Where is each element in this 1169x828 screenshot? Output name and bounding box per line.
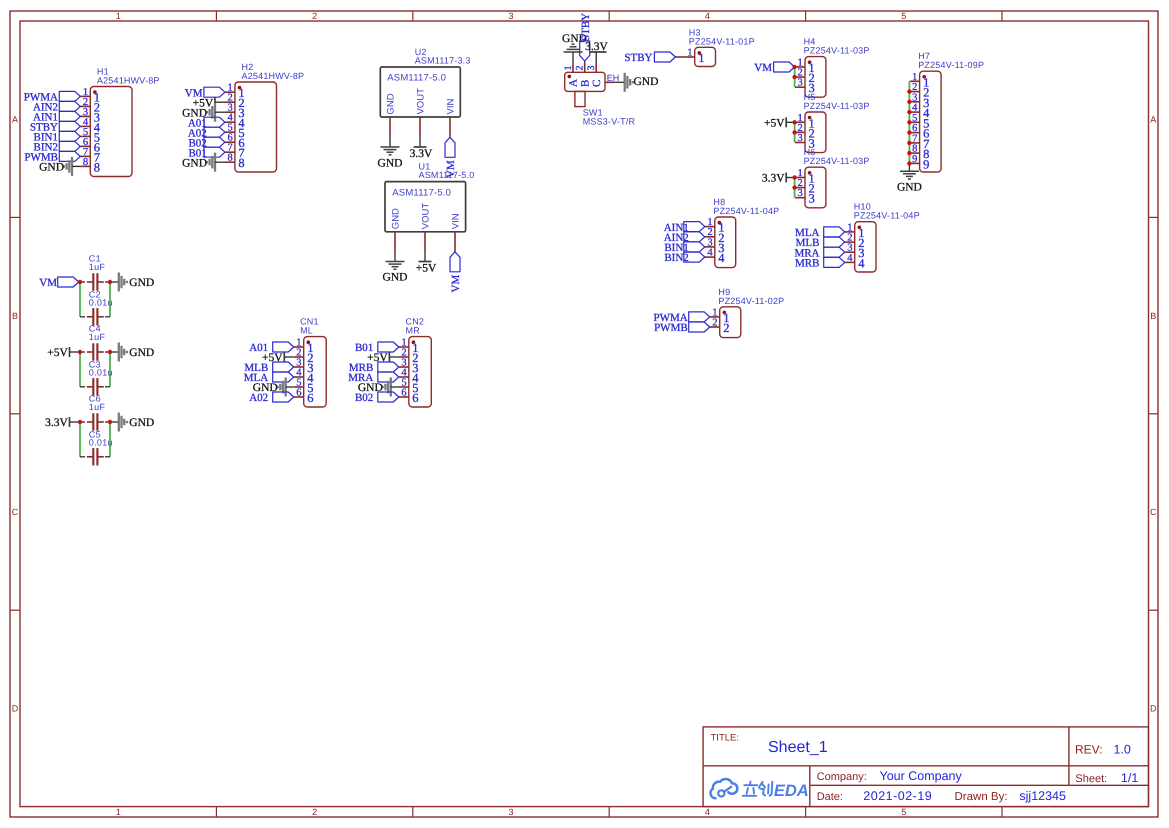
svg-text:B: B — [1150, 311, 1156, 321]
svg-text:Your Company: Your Company — [880, 769, 963, 783]
net flag VM to H4 — [754, 62, 794, 74]
svg-text:4: 4 — [858, 256, 865, 270]
svg-text:2: 2 — [312, 807, 317, 817]
CN1 pin numbers — [296, 338, 314, 406]
connector H4 (PZ254V-11-03P) body — [795, 57, 826, 98]
svg-text:3: 3 — [508, 807, 513, 817]
net flag MLB — [796, 237, 845, 249]
ground GND flag — [182, 153, 225, 172]
ground GND (right of C4) — [119, 343, 154, 362]
capacitor C5 0.01u — [87, 448, 104, 465]
wire C4 to GND — [110, 351, 119, 353]
svg-text:B: B — [12, 311, 18, 321]
ground GND at SW1 pin 1 — [562, 33, 587, 63]
U1 reference label — [419, 162, 475, 181]
svg-text:A: A — [568, 79, 580, 87]
junction dots on 3.3V rail — [78, 420, 112, 424]
svg-text:VIN: VIN — [445, 99, 456, 115]
svg-text:PZ254V-11-04P: PZ254V-11-04P — [713, 206, 779, 216]
net flag VM at U1 VIN — [450, 252, 462, 293]
svg-text:REV:: REV: — [1075, 743, 1103, 757]
connector H6 (PZ254V-11-03P) body — [795, 167, 826, 208]
ground GND at U2 pin 1 — [378, 137, 403, 170]
net flag B01 — [355, 342, 399, 354]
net flag PWMA — [24, 91, 81, 103]
svg-text:5: 5 — [901, 11, 906, 21]
svg-text:4: 4 — [705, 807, 710, 817]
svg-text:+5V: +5V — [764, 118, 785, 130]
svg-text:1: 1 — [116, 807, 121, 817]
svg-text:ASM1117-5.0: ASM1117-5.0 — [392, 187, 451, 198]
svg-text:6: 6 — [412, 391, 418, 405]
junctions H4 — [792, 65, 796, 80]
svg-text:2: 2 — [712, 318, 717, 329]
svg-text:Date:: Date: — [817, 791, 843, 803]
svg-text:GND: GND — [39, 162, 64, 174]
svg-text:3: 3 — [798, 188, 803, 199]
net flag A01 — [188, 117, 225, 129]
connector H10 (PZ254V-11-04P) body — [845, 222, 876, 272]
svg-text:sjj12345: sjj12345 — [1019, 789, 1066, 803]
svg-text:1uF: 1uF — [89, 402, 106, 412]
svg-text:3: 3 — [798, 133, 803, 144]
svg-text:3: 3 — [798, 78, 803, 89]
U1 pin leads — [395, 232, 455, 252]
svg-text:MR: MR — [406, 326, 421, 336]
svg-text:8: 8 — [227, 153, 232, 164]
connector H5 (PZ254V-11-03P) body — [795, 112, 826, 153]
svg-text:4: 4 — [705, 11, 710, 21]
svg-text:PZ254V-11-09P: PZ254V-11-09P — [918, 60, 984, 70]
svg-text:4: 4 — [718, 251, 725, 265]
H8 pin numbers — [707, 217, 725, 265]
svg-text:VM: VM — [39, 277, 57, 289]
net flag STBY — [30, 121, 80, 133]
H1 pin numbers — [83, 87, 101, 174]
wire parallel branch down to C2 — [80, 282, 110, 317]
net flag B02 — [188, 137, 224, 149]
H6 pin numbers — [798, 168, 815, 206]
LCEDA logo — [710, 779, 808, 800]
H5 reference label — [804, 92, 870, 111]
capacitor C6 1uF — [87, 413, 104, 430]
svg-text:+5V: +5V — [416, 263, 437, 275]
H4 reference label — [804, 37, 870, 56]
net flag MLB — [244, 362, 293, 374]
svg-text:A2541HWV-8P: A2541HWV-8P — [242, 71, 305, 81]
H2 reference label — [242, 62, 305, 81]
wire H6 pins common — [794, 178, 796, 198]
svg-text:8: 8 — [83, 157, 88, 168]
H5 pin numbers — [798, 113, 815, 151]
capacitor C1 1uF — [87, 273, 104, 290]
svg-text:EDA: EDA — [774, 782, 809, 800]
C3 label — [89, 359, 113, 377]
wire C6 to GND — [110, 421, 119, 423]
svg-text:C: C — [591, 80, 603, 87]
C5 label — [89, 429, 113, 447]
net flag MLA — [244, 372, 294, 384]
svg-text:B02: B02 — [355, 392, 373, 404]
H4 pin numbers — [798, 58, 815, 96]
svg-text:PWMB: PWMB — [654, 322, 688, 334]
svg-text:ASM1117-5.0: ASM1117-5.0 — [387, 73, 446, 84]
svg-text:1.0: 1.0 — [1114, 743, 1131, 757]
wire H7 pins common to ground — [908, 81, 910, 171]
ground GND flag — [182, 103, 225, 122]
svg-text:6: 6 — [307, 391, 313, 405]
power flag +5V — [764, 117, 795, 129]
net flag STBY at SW1 pin 2 — [580, 13, 592, 63]
junctions H5 — [792, 120, 796, 134]
svg-text:GND: GND — [182, 157, 207, 169]
svg-text:3.3V: 3.3V — [585, 41, 608, 53]
svg-text:Drawn By:: Drawn By: — [955, 791, 1008, 803]
switch SW1 (MSS3-V-T/R) body — [565, 72, 605, 106]
net flag AIN1 — [33, 111, 80, 123]
wire 3.3V rail to C6 — [80, 421, 110, 423]
power flag +5V — [193, 97, 225, 109]
svg-text:0.01u: 0.01u — [89, 438, 113, 448]
net flag A02 — [188, 127, 225, 139]
svg-text:PZ254V-11-02P: PZ254V-11-02P — [718, 296, 784, 306]
ground GND flag — [253, 378, 294, 397]
SW1 reference label — [583, 107, 636, 126]
wire H5 pins common — [794, 122, 796, 142]
svg-text:3.3V: 3.3V — [45, 417, 68, 429]
svg-text:+5V: +5V — [47, 347, 68, 359]
junctions H6 — [792, 175, 796, 190]
H8 reference label — [713, 197, 779, 216]
svg-text:8: 8 — [238, 156, 244, 170]
svg-text:STBY: STBY — [624, 52, 652, 64]
svg-text:Company:: Company: — [817, 771, 867, 783]
svg-text:0.01u: 0.01u — [89, 298, 113, 308]
net flag 3.3V (decoupling rail) — [45, 417, 80, 429]
svg-text:0.01u: 0.01u — [89, 368, 113, 378]
svg-text:ML: ML — [300, 326, 313, 336]
svg-text:2: 2 — [312, 11, 317, 21]
svg-text:B: B — [579, 80, 591, 87]
ground GND (right of C1) — [119, 273, 154, 292]
svg-text:PZ254V-11-03P: PZ254V-11-03P — [804, 46, 870, 56]
svg-text:9: 9 — [923, 157, 929, 171]
H9 reference label — [718, 287, 784, 306]
svg-text:1/1: 1/1 — [1121, 771, 1138, 785]
wire parallel branch down to C3 — [80, 352, 110, 387]
H3 pin numbers — [687, 48, 704, 66]
svg-text:C: C — [12, 507, 19, 517]
svg-text:2: 2 — [723, 321, 729, 335]
H2 pin numbers — [227, 83, 245, 171]
net flag MRA — [348, 372, 399, 384]
svg-text:3: 3 — [809, 192, 815, 206]
H10 reference label — [854, 202, 920, 221]
net flag AIN2 — [664, 232, 705, 244]
ground GND flag — [358, 378, 399, 397]
ground GND at H7 — [897, 171, 922, 193]
net flag BIN1 — [664, 242, 704, 254]
connector H2 (A2541HWV-8P) body — [225, 82, 277, 172]
svg-text:BIN2: BIN2 — [664, 252, 688, 264]
CN2 pin numbers — [401, 338, 419, 406]
net flag MRA — [794, 247, 844, 259]
net flag PWMA — [653, 312, 709, 324]
net flag MRB — [349, 362, 399, 374]
svg-text:1uF: 1uF — [89, 262, 106, 272]
wire VM rail to C1 — [80, 281, 110, 283]
svg-text:ASM1117-5.0: ASM1117-5.0 — [419, 170, 475, 180]
svg-text:GND: GND — [129, 347, 154, 359]
H10 pin numbers — [847, 222, 865, 270]
svg-text:GND: GND — [129, 417, 154, 429]
connector H1 (A2541HWV-8P) body — [80, 87, 132, 177]
net flag STBY to H3 — [624, 52, 684, 64]
junction dots on +5V rail — [78, 350, 112, 354]
svg-text:8: 8 — [94, 160, 100, 174]
power flag +5V — [262, 352, 294, 364]
svg-text:2: 2 — [575, 66, 586, 71]
svg-text:PZ254V-11-03P: PZ254V-11-03P — [804, 156, 870, 166]
svg-text:VOUT: VOUT — [415, 88, 426, 115]
net flag AIN1 — [664, 222, 705, 234]
svg-text:9: 9 — [912, 154, 917, 165]
power flag +5V at U1 VOUT — [416, 252, 437, 275]
net flag PWMB — [654, 322, 710, 334]
net flag A01 — [249, 342, 293, 354]
svg-text:A: A — [1150, 114, 1156, 124]
svg-text:VOUT: VOUT — [420, 203, 431, 230]
svg-text:GND: GND — [383, 272, 408, 284]
connector H8 (PZ254V-11-04P) body — [705, 217, 736, 268]
svg-text:PZ254V-11-01P: PZ254V-11-01P — [689, 36, 755, 46]
U2 reference label — [415, 47, 471, 66]
svg-text:D: D — [12, 704, 19, 714]
svg-text:PZ254V-11-04P: PZ254V-11-04P — [854, 211, 920, 221]
svg-text:GND: GND — [897, 181, 922, 193]
wire +5V rail to C4 — [80, 351, 110, 353]
svg-text:PZ254V-11-03P: PZ254V-11-03P — [804, 101, 870, 111]
junction dots on VM rail — [78, 280, 112, 284]
C4 label — [89, 324, 106, 342]
svg-text:6: 6 — [401, 388, 406, 399]
title block — [703, 727, 1148, 807]
svg-text:Sheet_1: Sheet_1 — [768, 739, 828, 756]
svg-text:6: 6 — [296, 388, 301, 399]
ground GND flag — [39, 157, 80, 176]
svg-text:3.3V: 3.3V — [762, 173, 785, 185]
net flag VM at U2 VIN — [445, 137, 457, 178]
net flag B01 — [188, 147, 224, 159]
SW1 top pin leads — [563, 63, 597, 73]
net flag VM (decoupling rail) — [39, 277, 78, 289]
C2 label — [89, 289, 113, 307]
wire parallel branch down to C5 — [80, 422, 110, 457]
regulator U2 (ASM1117-3.3) body — [380, 67, 460, 117]
svg-text:ASM1117-3.3: ASM1117-3.3 — [415, 56, 471, 66]
connector H3 (PZ254V-11-01P) body — [685, 47, 716, 66]
svg-text:VM: VM — [754, 62, 772, 74]
svg-text:GND: GND — [385, 93, 396, 114]
svg-text:3: 3 — [508, 11, 513, 21]
connector H9 (PZ254V-11-02P) body — [710, 307, 741, 338]
svg-text:2021-02-19: 2021-02-19 — [863, 789, 932, 803]
H9 pin numbers — [712, 307, 729, 335]
svg-text:D: D — [1150, 704, 1157, 714]
svg-text:5: 5 — [901, 807, 906, 817]
net flag AIN2 — [33, 101, 80, 113]
C6 label — [89, 394, 106, 412]
svg-text:A02: A02 — [249, 392, 268, 404]
power flag 3.3V at SW1 pin 3 — [585, 41, 608, 63]
svg-text:1: 1 — [687, 48, 692, 59]
connector CN2 (MR) body — [399, 337, 432, 407]
net flag BIN2 — [664, 252, 704, 264]
svg-text:4: 4 — [847, 253, 853, 264]
C1 label — [89, 254, 106, 272]
svg-text:MRB: MRB — [795, 258, 819, 270]
CN1 reference label — [300, 317, 319, 336]
capacitor C4 1uF — [87, 343, 104, 360]
power flag +5V — [367, 352, 399, 364]
svg-text:GND: GND — [390, 208, 401, 229]
H7 pin numbers — [912, 72, 930, 172]
wire C1 to GND — [110, 281, 119, 283]
svg-text:GND: GND — [634, 76, 659, 88]
svg-text:4: 4 — [707, 248, 713, 259]
net flag MRB — [795, 257, 845, 269]
net flag VM — [185, 87, 225, 99]
svg-text:VM: VM — [450, 275, 462, 293]
svg-text:3.3V: 3.3V — [410, 148, 433, 160]
svg-text:1uF: 1uF — [89, 332, 106, 342]
power flag 3.3V at U2 VOUT — [410, 137, 433, 160]
H1 reference label — [97, 67, 160, 86]
wire H4 pins common — [794, 67, 796, 87]
svg-text:1: 1 — [698, 51, 704, 65]
svg-text:1: 1 — [563, 66, 574, 71]
svg-text:GND: GND — [129, 277, 154, 289]
net flag MLA — [795, 227, 845, 239]
ground GND at U1 pin 1 — [383, 252, 408, 284]
svg-text:VIN: VIN — [450, 213, 461, 229]
svg-text:Sheet:: Sheet: — [1075, 773, 1107, 785]
connector H7 (PZ254V-11-09P) body — [910, 71, 942, 172]
net flag BIN1 — [34, 131, 81, 143]
connector CN1 (ML) body — [294, 337, 327, 407]
SW1 EH pin and ground — [605, 73, 658, 92]
svg-text:STBY: STBY — [580, 13, 592, 41]
svg-text:TITLE:: TITLE: — [711, 733, 740, 744]
net flag +5V (decoupling rail) — [47, 347, 80, 359]
svg-text:MSS3-V-T/R: MSS3-V-T/R — [583, 116, 636, 126]
svg-text:3: 3 — [586, 66, 597, 71]
H7 reference label — [918, 51, 984, 70]
svg-text:A: A — [12, 114, 18, 124]
H6 reference label — [804, 147, 870, 166]
svg-text:A2541HWV-8P: A2541HWV-8P — [97, 76, 160, 86]
capacitor C3 0.01u — [87, 378, 104, 395]
svg-text:1: 1 — [116, 11, 121, 21]
power flag 3.3V — [762, 173, 795, 185]
capacitor C2 0.01u — [87, 308, 104, 325]
svg-text:EH: EH — [607, 73, 620, 83]
svg-text:C: C — [1150, 507, 1157, 517]
junctions H7 — [907, 89, 911, 165]
CN2 reference label — [406, 317, 425, 336]
net flag B02 — [355, 392, 399, 404]
ground GND (right of C6) — [119, 413, 154, 432]
svg-text:GND: GND — [378, 158, 403, 170]
regulator U1 (ASM1117-5.0) body — [385, 182, 466, 232]
U2 pin leads — [390, 117, 450, 137]
net flag BIN2 — [34, 141, 81, 153]
net flag PWMB — [24, 151, 80, 163]
net flag A02 — [249, 392, 293, 404]
H3 reference label — [689, 27, 755, 46]
